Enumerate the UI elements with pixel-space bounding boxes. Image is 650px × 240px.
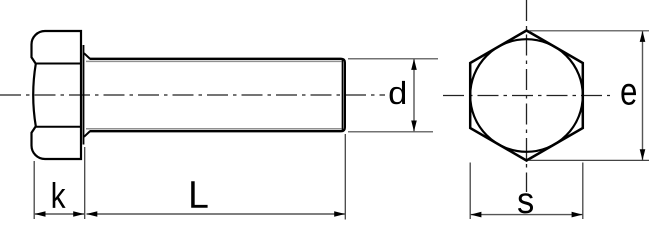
bolt head outline (side view) bbox=[32, 31, 82, 159]
extension line s left bbox=[469, 163, 471, 220]
hexagon (end view) bbox=[470, 31, 583, 161]
extension line d bottom bbox=[348, 131, 433, 133]
label e bbox=[621, 84, 636, 105]
label d bbox=[390, 81, 406, 104]
extension line e bottom bbox=[529, 159, 649, 161]
dimension line s bbox=[470, 212, 582, 218]
label s bbox=[518, 193, 533, 213]
centerline hex view vertical bbox=[526, 0, 528, 192]
head facet line upper bbox=[36, 63, 81, 65]
thread chamfer line at bolt end bbox=[341, 60, 343, 131]
shank outline bbox=[90, 59, 345, 131]
thread root line top bbox=[86, 60, 342, 62]
dimension line d bbox=[411, 59, 417, 132]
extension line s right bbox=[582, 163, 584, 220]
extension line e top bbox=[529, 30, 649, 32]
extension line L right (bolt end) bbox=[344, 134, 346, 220]
label k bbox=[53, 182, 66, 208]
label L bbox=[191, 181, 207, 208]
extension line d top bbox=[348, 58, 438, 60]
centerline bolt axis bbox=[0, 94, 385, 96]
thread runout diagonal top bbox=[84, 53, 90, 59]
thread root line bottom bbox=[86, 128, 342, 130]
extension line k right / L left (under washer face) bbox=[84, 147, 86, 219]
extension line k left bbox=[33, 161, 35, 219]
washer face under head bbox=[83, 45, 85, 145]
dimension line k bbox=[35, 211, 85, 217]
thread runout diagonal bottom bbox=[84, 131, 90, 137]
dimension line e bbox=[640, 31, 646, 160]
centerline hex view horizontal bbox=[443, 95, 610, 97]
inscribed circle (end view) bbox=[470, 39, 583, 152]
dimension line L bbox=[86, 211, 345, 217]
head facet line lower bbox=[36, 126, 81, 128]
